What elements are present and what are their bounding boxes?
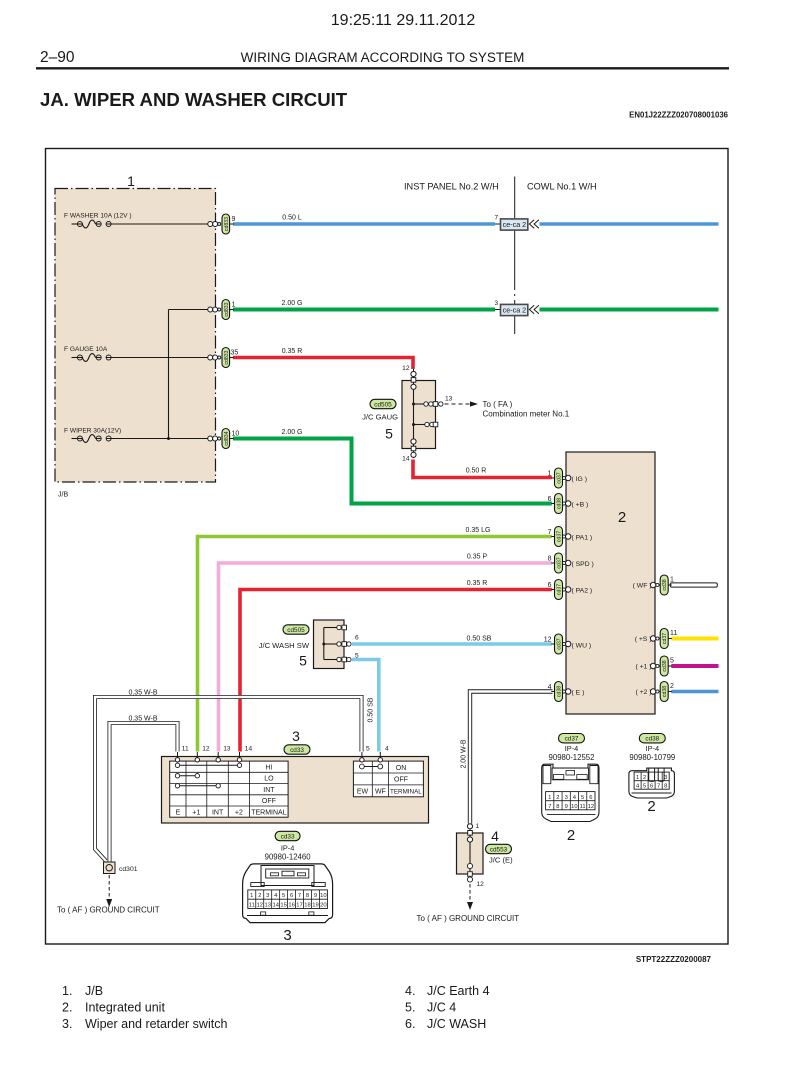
- svg-text:6: 6: [355, 635, 359, 642]
- svg-text:cd553: cd553: [490, 846, 508, 853]
- svg-text:10: 10: [571, 804, 577, 810]
- svg-text:cd37: cd37: [557, 472, 563, 483]
- svg-text:12: 12: [544, 637, 552, 644]
- svg-text:( +2 ): ( +2 ): [635, 689, 651, 696]
- svg-text:( SPD ): ( SPD ): [572, 561, 594, 568]
- svg-text:7: 7: [548, 529, 552, 536]
- svg-text:WF: WF: [375, 789, 386, 796]
- svg-text:9: 9: [232, 216, 236, 223]
- svg-text:6: 6: [650, 783, 653, 789]
- svg-text:14: 14: [245, 746, 253, 753]
- svg-text:10: 10: [320, 893, 326, 899]
- svg-text:5: 5: [282, 893, 285, 899]
- svg-text:1: 1: [548, 795, 551, 801]
- svg-text:7: 7: [657, 783, 660, 789]
- svg-text:cd38: cd38: [557, 498, 563, 509]
- svg-text:13: 13: [445, 396, 453, 403]
- svg-text:5: 5: [299, 653, 307, 669]
- svg-text:14: 14: [272, 903, 279, 909]
- svg-text:+1: +1: [192, 809, 200, 816]
- svg-text:11: 11: [249, 903, 255, 909]
- svg-text:cd37: cd37: [557, 584, 563, 595]
- svg-text:2: 2: [643, 775, 646, 781]
- svg-text:2: 2: [647, 798, 655, 815]
- svg-text:cd38: cd38: [645, 736, 659, 743]
- svg-text:13: 13: [264, 903, 270, 909]
- svg-text:17: 17: [296, 903, 302, 909]
- svg-text:3: 3: [266, 893, 269, 899]
- svg-text:IP-4: IP-4: [565, 744, 579, 753]
- svg-text:( +B ): ( +B ): [572, 501, 589, 508]
- svg-text:TERMINAL: TERMINAL: [251, 809, 287, 816]
- svg-text:11: 11: [670, 630, 677, 637]
- svg-text:J/C WASH: J/C WASH: [427, 1017, 486, 1031]
- svg-text:0.50 R: 0.50 R: [466, 468, 487, 475]
- svg-text:1: 1: [250, 893, 253, 899]
- svg-text:20: 20: [320, 903, 326, 909]
- svg-text:0.35 W-B: 0.35 W-B: [128, 716, 157, 723]
- svg-text:12: 12: [202, 746, 210, 753]
- svg-text:4: 4: [491, 828, 499, 844]
- svg-text:J/C Earth 4: J/C Earth 4: [427, 984, 490, 998]
- svg-text:cd33: cd33: [281, 833, 295, 840]
- svg-text:5: 5: [385, 426, 393, 442]
- svg-text:cd833: cd833: [224, 217, 230, 231]
- svg-text:4: 4: [385, 746, 389, 753]
- svg-text:11: 11: [182, 746, 189, 753]
- svg-text:J/C WASH SW: J/C WASH SW: [259, 641, 310, 650]
- svg-text:0.50 SB: 0.50 SB: [368, 697, 375, 722]
- svg-text:16: 16: [288, 903, 294, 909]
- svg-text:2: 2: [556, 795, 559, 801]
- svg-text:2: 2: [670, 683, 674, 690]
- svg-text:0.35 R: 0.35 R: [282, 348, 303, 355]
- svg-text:2.00 W-B: 2.00 W-B: [461, 739, 468, 768]
- svg-text:F WIPER 30A(12V): F WIPER 30A(12V): [64, 428, 121, 435]
- svg-text:COWL No.1 W/H: COWL No.1 W/H: [527, 182, 597, 192]
- svg-text:4.: 4.: [405, 984, 415, 998]
- svg-text:INT: INT: [263, 787, 275, 794]
- svg-text:LO: LO: [264, 776, 274, 783]
- svg-text:OFF: OFF: [394, 777, 408, 784]
- svg-text:EW: EW: [357, 789, 369, 796]
- svg-text:cd38: cd38: [557, 686, 563, 697]
- svg-text:( WU ): ( WU ): [572, 642, 592, 649]
- svg-text:35: 35: [231, 350, 239, 357]
- svg-text:12: 12: [402, 365, 410, 372]
- svg-text:IP-4: IP-4: [281, 844, 295, 853]
- svg-text:0.35 LG: 0.35 LG: [466, 527, 491, 534]
- svg-text:0.35 W-B: 0.35 W-B: [128, 690, 157, 697]
- svg-text:cd37: cd37: [662, 633, 668, 644]
- svg-text:cd37: cd37: [557, 531, 563, 542]
- svg-text:6: 6: [589, 795, 592, 801]
- svg-text:11: 11: [580, 804, 586, 810]
- svg-text:( +S ): ( +S ): [635, 636, 652, 643]
- svg-text:JA. WIPER AND WASHER CIRCUIT: JA. WIPER AND WASHER CIRCUIT: [40, 89, 348, 110]
- svg-text:5: 5: [366, 746, 370, 753]
- svg-text:9: 9: [565, 804, 568, 810]
- svg-text:90980-10799: 90980-10799: [629, 753, 675, 762]
- svg-text:2: 2: [618, 509, 626, 526]
- svg-text:ce-ca 2: ce-ca 2: [503, 305, 527, 314]
- svg-text:5: 5: [643, 783, 646, 789]
- svg-text:5.: 5.: [405, 1001, 415, 1015]
- svg-text:( IG ): ( IG ): [572, 476, 587, 483]
- svg-text:1: 1: [232, 302, 236, 309]
- svg-text:14: 14: [402, 456, 410, 463]
- svg-text:0.50 L: 0.50 L: [282, 215, 302, 222]
- svg-text:7: 7: [548, 804, 551, 810]
- svg-text:cd38: cd38: [662, 660, 668, 671]
- svg-text:cd38: cd38: [662, 686, 668, 697]
- svg-text:7: 7: [298, 893, 301, 899]
- svg-text:15: 15: [280, 903, 286, 909]
- svg-text:8: 8: [556, 804, 559, 810]
- svg-text:90980-12460: 90980-12460: [265, 853, 312, 862]
- svg-text:+2: +2: [235, 809, 243, 816]
- svg-text:6: 6: [548, 582, 552, 589]
- svg-text:1: 1: [548, 471, 552, 478]
- svg-text:5: 5: [670, 658, 674, 665]
- svg-text:12: 12: [477, 881, 485, 888]
- svg-text:19:25:11 29.11.2012: 19:25:11 29.11.2012: [331, 12, 476, 29]
- svg-text:( PA1 ): ( PA1 ): [572, 534, 593, 541]
- svg-text:EN01J22ZZZ020708001036: EN01J22ZZZ020708001036: [629, 111, 728, 120]
- svg-text:( E ): ( E ): [572, 689, 585, 696]
- svg-text:( PA2 ): ( PA2 ): [572, 587, 593, 594]
- svg-text:2.: 2.: [62, 1001, 72, 1015]
- svg-text:F GAUGE 10A: F GAUGE 10A: [64, 346, 108, 353]
- svg-text:INST PANEL No.2 W/H: INST PANEL No.2 W/H: [404, 182, 499, 192]
- svg-text:90980-12552: 90980-12552: [549, 753, 595, 762]
- svg-text:1: 1: [127, 173, 135, 189]
- svg-text:cd505: cd505: [374, 401, 392, 408]
- svg-text:Integrated unit: Integrated unit: [85, 1001, 165, 1015]
- svg-text:cd833: cd833: [224, 350, 230, 364]
- svg-text:5: 5: [581, 795, 584, 801]
- svg-text:4: 4: [548, 684, 552, 691]
- svg-text:J/C 4: J/C 4: [427, 1001, 456, 1015]
- svg-text:To ( AF ) GROUND CIRCUIT: To ( AF ) GROUND CIRCUIT: [417, 914, 520, 923]
- svg-text:STPT22ZZZ0200087: STPT22ZZZ0200087: [636, 955, 712, 964]
- svg-text:1: 1: [476, 823, 480, 830]
- svg-text:0.50 SB: 0.50 SB: [467, 636, 492, 643]
- svg-text:8: 8: [664, 783, 667, 789]
- svg-text:3: 3: [565, 795, 568, 801]
- svg-text:J/C GAUG: J/C GAUG: [362, 413, 398, 422]
- svg-text:WIRING DIAGRAM ACCORDING TO SY: WIRING DIAGRAM ACCORDING TO SYSTEM: [241, 50, 525, 65]
- svg-text:cd37: cd37: [557, 557, 563, 568]
- svg-text:cd834: cd834: [224, 431, 230, 445]
- svg-text:0.35 P: 0.35 P: [467, 554, 488, 561]
- svg-text:TERMINAL: TERMINAL: [390, 789, 422, 796]
- svg-text:Combination meter No.1: Combination meter No.1: [483, 410, 570, 419]
- svg-text:8: 8: [306, 893, 309, 899]
- svg-text:3: 3: [494, 300, 498, 307]
- svg-text:2: 2: [567, 827, 575, 844]
- svg-text:E: E: [176, 809, 181, 816]
- svg-text:J/B: J/B: [58, 492, 68, 499]
- svg-text:12: 12: [588, 804, 594, 810]
- svg-text:0.35 R: 0.35 R: [467, 580, 488, 587]
- svg-text:( WF ): ( WF ): [633, 583, 652, 590]
- svg-text:13: 13: [223, 746, 231, 753]
- svg-text:3: 3: [292, 728, 300, 744]
- svg-text:3: 3: [283, 927, 291, 944]
- svg-text:19: 19: [312, 903, 318, 909]
- svg-text:F WASHER 10A (12V ): F WASHER 10A (12V ): [64, 213, 132, 220]
- svg-text:5: 5: [355, 653, 359, 660]
- svg-text:cd37: cd37: [565, 736, 579, 743]
- svg-text:cd505: cd505: [287, 627, 305, 634]
- svg-text:10: 10: [232, 431, 240, 438]
- svg-text:cd38: cd38: [662, 579, 668, 590]
- svg-text:6: 6: [548, 496, 552, 503]
- svg-text:2.00 G: 2.00 G: [281, 300, 302, 307]
- svg-text:6.: 6.: [405, 1017, 415, 1031]
- svg-text:To ( AF ) GROUND CIRCUIT: To ( AF ) GROUND CIRCUIT: [57, 906, 160, 915]
- svg-text:2: 2: [258, 893, 261, 899]
- svg-text:ce-ca 2: ce-ca 2: [503, 220, 527, 229]
- svg-text:8: 8: [548, 556, 552, 563]
- svg-text:Wiper and retarder switch: Wiper and retarder switch: [85, 1017, 227, 1031]
- svg-text:1: 1: [636, 775, 639, 781]
- svg-text:IP-4: IP-4: [646, 744, 660, 753]
- svg-text:cd833: cd833: [224, 302, 230, 316]
- svg-text:cd37: cd37: [557, 638, 563, 649]
- svg-text:3.: 3.: [62, 1017, 72, 1031]
- svg-text:1.: 1.: [62, 984, 72, 998]
- svg-text:9: 9: [314, 893, 317, 899]
- svg-text:( +1 ): ( +1 ): [635, 664, 651, 671]
- svg-text:ON: ON: [396, 765, 407, 772]
- svg-text:12: 12: [257, 903, 263, 909]
- svg-text:cd301: cd301: [119, 866, 138, 873]
- svg-text:J/B: J/B: [85, 984, 103, 998]
- svg-text:2–90: 2–90: [40, 49, 75, 66]
- svg-text:1: 1: [670, 577, 674, 584]
- svg-text:7: 7: [494, 215, 498, 222]
- svg-text:18: 18: [304, 903, 310, 909]
- svg-text:HI: HI: [265, 765, 272, 772]
- svg-text:OFF: OFF: [262, 798, 276, 805]
- svg-text:INT: INT: [212, 809, 224, 816]
- svg-text:cd33: cd33: [290, 747, 304, 754]
- svg-text:J/C (E): J/C (E): [489, 856, 513, 865]
- svg-text:2.00 G: 2.00 G: [281, 429, 302, 436]
- svg-text:To ( FA ): To ( FA ): [483, 400, 513, 409]
- svg-text:6: 6: [290, 893, 293, 899]
